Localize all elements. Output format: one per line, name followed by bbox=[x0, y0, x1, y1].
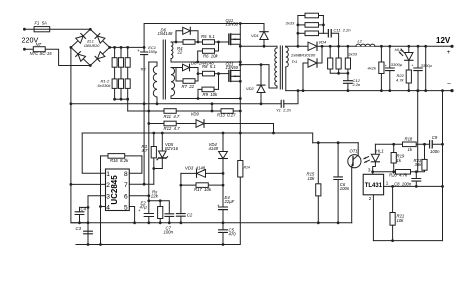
wire fuse line to bridge top bbox=[24, 28, 90, 30]
svg-text:100n: 100n bbox=[164, 229, 174, 234]
wire Tr1 secondary bottom lead bbox=[285, 67, 287, 91]
svg-text:VD3 4148: VD3 4148 bbox=[185, 165, 206, 170]
wire Tr1 primary bottom lead bbox=[276, 86, 278, 88]
svg-text:TL431: TL431 bbox=[365, 183, 383, 189]
wire secondary ground rail bbox=[286, 90, 452, 92]
node output terminal - bbox=[450, 89, 453, 92]
thermistor NT (NTC SC-15) bbox=[33, 47, 45, 52]
wire TL431 ref line bbox=[384, 185, 443, 187]
resistor R13 0.27 bbox=[221, 109, 233, 114]
diode VD4 4148 (aux) bbox=[222, 133, 224, 152]
svg-text:R18: R18 bbox=[405, 136, 413, 141]
svg-text:–: – bbox=[447, 81, 451, 88]
junction R3 Vcc bus bbox=[152, 132, 155, 135]
svg-text:C4: C4 bbox=[81, 207, 87, 212]
transistor Q11 13N50 bbox=[228, 34, 230, 44]
wire R11 R13 line bbox=[128, 110, 241, 112]
svg-text:GBU810: GBU810 bbox=[84, 43, 100, 48]
resistor 4x1k bbox=[380, 46, 382, 62]
wire R13 to ground rail bbox=[211, 104, 213, 111]
wire pin6 out bbox=[129, 195, 149, 197]
svg-text:R6 10k: R6 10k bbox=[203, 54, 219, 59]
wire pin2 bbox=[71, 183, 106, 185]
junction E4 C5 ground bus bbox=[222, 221, 225, 224]
junction source line end bbox=[239, 61, 242, 64]
wire Tr1 primary top lead bbox=[276, 46, 278, 48]
svg-text:C3: C3 bbox=[76, 226, 82, 231]
wire output to R20 corner bbox=[417, 91, 419, 172]
svg-text:OT1: OT1 bbox=[350, 148, 358, 153]
junction R6 to source line bbox=[196, 61, 199, 64]
junction C6 top bbox=[337, 141, 340, 144]
wire R7 left loop bbox=[176, 68, 183, 82]
junction pin6 driver vertical bbox=[147, 194, 150, 197]
svg-text:VD2: VD2 bbox=[246, 86, 255, 91]
svg-text:2: 2 bbox=[369, 196, 372, 201]
junction bridge bottom vertex bbox=[89, 64, 92, 67]
capacitor C7 100n bbox=[165, 214, 174, 217]
transformer Tr2 secondary 1 bbox=[171, 42, 173, 59]
wire Q11 Q21 stack vertical bbox=[239, 24, 241, 99]
resistor R6 10k bbox=[198, 51, 203, 62]
svg-text:F1 5A: F1 5A bbox=[35, 21, 48, 26]
svg-text:8: 8 bbox=[124, 171, 128, 178]
wire pin5 to ground bus bbox=[129, 207, 134, 223]
svg-text:4x1k: 4x1k bbox=[368, 65, 377, 70]
junction bridge - output bbox=[70, 46, 73, 49]
svg-text:HL1: HL1 bbox=[376, 148, 384, 153]
capacitor Y1 2.2n bbox=[281, 100, 284, 107]
svg-text:10k: 10k bbox=[397, 218, 405, 223]
wire sense vertical to bottom rail bbox=[223, 177, 240, 245]
bridge diode top-right bbox=[97, 36, 105, 43]
junction EC1 ground rail bbox=[143, 102, 146, 105]
svg-text:3x33: 3x33 bbox=[286, 21, 295, 26]
capacitor C3 bbox=[84, 231, 93, 234]
wire R7 right loop bbox=[195, 68, 198, 82]
wire sec1 top lead bbox=[171, 41, 176, 43]
junction R21 top bbox=[391, 185, 394, 188]
junction bus VD4 chain bbox=[222, 132, 225, 135]
resistor R8 5.1 bbox=[203, 71, 215, 76]
capacitor C8 100n bbox=[415, 172, 417, 179]
junction R17 chain bbox=[222, 184, 225, 187]
resistor R4 22 bbox=[183, 40, 195, 45]
zener VD5 BZV16 bbox=[161, 133, 163, 151]
resistors 3x33 snubber bbox=[298, 15, 305, 17]
wire secondary 12V line bbox=[286, 45, 452, 47]
resistor R21 10k bbox=[392, 186, 394, 212]
wire EC1 to pin7 Vcc bbox=[143, 55, 145, 185]
resistor R12 4.7 bbox=[164, 121, 176, 126]
wire sec2 top lead bbox=[171, 67, 176, 69]
wire sense vertical upper bbox=[239, 99, 241, 161]
diode D6 1N4148 bbox=[183, 27, 191, 34]
svg-text:36k: 36k bbox=[415, 162, 423, 167]
svg-text:R7 22: R7 22 bbox=[182, 84, 195, 89]
node input terminal N bbox=[23, 48, 26, 51]
wire C2 vertical bbox=[180, 173, 182, 213]
junction clamp R3 bbox=[152, 167, 155, 170]
bridge diode top-left bbox=[76, 36, 84, 43]
resistor R22 4.7k bbox=[408, 60, 410, 70]
led HL2 bbox=[408, 46, 410, 52]
transformer Tr2 core bbox=[163, 40, 165, 99]
junction R13 sense vertical bbox=[239, 110, 242, 113]
junction VD1 primary top bbox=[263, 45, 266, 48]
junction VD5 Vcc bus bbox=[161, 132, 164, 135]
wire snubber left vertical bbox=[297, 16, 299, 47]
svg-text:4148: 4148 bbox=[209, 146, 219, 151]
capacitor C4 bbox=[80, 206, 89, 208]
junction Tr2 primary to ground rail bbox=[156, 102, 159, 105]
svg-text:L2: L2 bbox=[358, 38, 363, 43]
resistor R19 1k bbox=[393, 144, 395, 152]
svg-text:+: + bbox=[447, 49, 451, 56]
svg-text:1: 1 bbox=[386, 181, 389, 186]
wire clamp line bbox=[154, 168, 163, 170]
junction R11 line driver vertical bbox=[147, 110, 150, 113]
wire ground bus bbox=[71, 222, 352, 224]
wire R1-2 bottom bus bbox=[115, 98, 128, 100]
led HL1 bbox=[374, 144, 376, 154]
capacitor C14 3300u bbox=[417, 46, 419, 68]
svg-text:R5 5.1: R5 5.1 bbox=[201, 34, 215, 39]
svg-text:6x330k: 6x330k bbox=[98, 83, 112, 88]
wire gate line Q21 bbox=[198, 73, 228, 75]
junction Q11 gate node bbox=[217, 41, 220, 44]
resistors R1-2 6x330k bank bbox=[114, 47, 116, 99]
diode VD4b MBR30100 bbox=[303, 62, 308, 64]
wire Vcc feedback bus bbox=[82, 133, 313, 143]
svg-text:3300µ: 3300µ bbox=[391, 62, 403, 67]
junction bridge top vertex bbox=[89, 28, 92, 31]
junction bridge + output bbox=[108, 46, 111, 49]
diode VD3 4148 bbox=[197, 170, 206, 178]
diode VD9 bbox=[196, 120, 204, 128]
wire R23 bottom bbox=[418, 170, 425, 172]
fuse F1 bbox=[34, 27, 50, 32]
junction pin3 C4 bbox=[87, 206, 90, 209]
svg-text:Y1 2.2n: Y1 2.2n bbox=[276, 108, 292, 113]
junction pin3 line ground bus bbox=[87, 221, 90, 224]
wire feedback top line bbox=[375, 143, 442, 145]
junction R19 top bbox=[392, 143, 395, 146]
wire RT CT node line bbox=[149, 201, 170, 214]
wire NTC line to bridge bottom bbox=[24, 49, 90, 65]
svg-text:UC2845: UC2845 bbox=[110, 175, 119, 205]
bridge diode bottom-right bbox=[97, 52, 105, 59]
junction C8 bottom bbox=[415, 185, 418, 188]
wire R17 line bbox=[181, 184, 223, 186]
junction C3 bottom rail bbox=[87, 243, 90, 246]
junction VD3 chain bbox=[222, 172, 225, 175]
junction R23 top bbox=[423, 143, 426, 146]
svg-text:13N50: 13N50 bbox=[226, 22, 239, 27]
junction RT vertical bottom rail bbox=[99, 243, 102, 246]
junction VD9 bus bbox=[272, 132, 275, 135]
svg-text:12V: 12V bbox=[436, 36, 451, 45]
wire opto emitter down bbox=[351, 167, 353, 223]
junction C12 ground bbox=[347, 89, 350, 92]
junction pin4 RT vertical bbox=[99, 205, 102, 208]
svg-text:7: 7 bbox=[124, 182, 128, 189]
svg-text:2.2n: 2.2n bbox=[352, 82, 362, 87]
svg-text:R13 0.27: R13 0.27 bbox=[217, 112, 236, 117]
wire Tr1 secondary top lead bbox=[285, 45, 287, 48]
svg-text:R12 4.7: R12 4.7 bbox=[164, 126, 181, 131]
diode VD1 bbox=[263, 24, 265, 47]
capacitor C2 bbox=[176, 214, 185, 217]
svg-text:BZV16: BZV16 bbox=[165, 146, 179, 151]
junction R9 to lower source line bbox=[197, 97, 200, 100]
svg-text:1: 1 bbox=[106, 171, 110, 178]
svg-text:VD1: VD1 bbox=[251, 33, 259, 38]
wire snubber right vertical bbox=[322, 16, 324, 34]
wire R20 line bbox=[373, 171, 418, 173]
capacitor C6 100n bbox=[337, 143, 339, 177]
diode VD4a MBR30100 bbox=[308, 42, 317, 50]
wire R1-2 to R11 line bbox=[127, 99, 129, 111]
wire +310V rail to top rail bbox=[110, 24, 264, 48]
resistor R17 10k bbox=[196, 183, 208, 188]
svg-text:13N50: 13N50 bbox=[226, 65, 239, 70]
junction C8 top bbox=[415, 170, 418, 173]
junction output rail right vertical bbox=[441, 89, 444, 92]
svg-text:4.7: 4.7 bbox=[142, 148, 149, 153]
svg-text:R16 8.2k: R16 8.2k bbox=[110, 158, 129, 163]
svg-text:10k: 10k bbox=[308, 176, 316, 181]
svg-text:Tr1: Tr1 bbox=[292, 59, 298, 64]
transistor Q21 13N50 bbox=[228, 70, 230, 81]
wire HL1 cathode to TL431 bbox=[373, 162, 376, 175]
capacitor C5 470 bbox=[219, 230, 228, 233]
junction Q21 source bbox=[239, 80, 242, 83]
svg-text:4.7k: 4.7k bbox=[396, 77, 405, 82]
wire feedback bottom rail bbox=[373, 240, 442, 242]
wire opto collector line bbox=[313, 142, 359, 144]
junction VD4 cathodes bbox=[321, 45, 324, 48]
svg-text:VD4: VD4 bbox=[319, 40, 328, 45]
wire pin7 Vcc bbox=[129, 183, 154, 185]
svg-text:R17 10k: R17 10k bbox=[194, 187, 212, 192]
svg-text:4: 4 bbox=[106, 204, 110, 211]
transformer Tr1 primary winding bbox=[275, 48, 277, 86]
svg-text:2xMBR30100: 2xMBR30100 bbox=[290, 52, 316, 57]
junction R17 line C2 vertical bbox=[180, 184, 183, 187]
junction R15 top bbox=[317, 141, 320, 144]
svg-text:C9: C9 bbox=[432, 135, 438, 140]
wire upper source line bbox=[171, 61, 240, 63]
wire VD9 to bus corner bbox=[204, 124, 274, 134]
wire output link vertical bbox=[425, 46, 427, 90]
wire C11 to secondary line bbox=[331, 33, 338, 46]
wire right vertical from output bbox=[442, 91, 444, 241]
svg-text:150µ: 150µ bbox=[148, 49, 158, 54]
capacitor C9 100n bbox=[430, 141, 433, 148]
svg-text:22: 22 bbox=[177, 49, 183, 54]
wire pin4 stub bbox=[101, 206, 106, 208]
junction R12 line driver vertical bbox=[147, 122, 150, 125]
svg-text:22k: 22k bbox=[150, 194, 159, 199]
wire Tr2 primary bottom bbox=[156, 97, 158, 104]
wire D8 line bbox=[176, 67, 198, 69]
junction lower source line end bbox=[239, 97, 242, 100]
junction feedback line right vertical bbox=[441, 143, 444, 146]
wire D6 bypass loop bbox=[176, 31, 198, 42]
svg-text:NT: NT bbox=[36, 42, 42, 47]
capacitor C13 3300u bbox=[389, 46, 391, 68]
resistor R7 22 bbox=[183, 79, 195, 84]
wire primary bottom route bbox=[240, 65, 277, 88]
capacitor C12 2.2n bbox=[344, 81, 353, 84]
svg-text:C2: C2 bbox=[187, 212, 193, 217]
resistors 3x33 output damper bbox=[329, 46, 331, 58]
resistor R16 8.2k bbox=[101, 155, 109, 157]
svg-text:6: 6 bbox=[124, 193, 128, 200]
transformer Tr2 primary winding bbox=[153, 66, 157, 97]
svg-text:Tr2: Tr2 bbox=[140, 66, 146, 71]
capacitor C11 2.2n bbox=[323, 32, 327, 34]
ic U1 UC2845 body bbox=[106, 169, 130, 211]
resistor R5 5.1 bbox=[203, 40, 215, 45]
svg-text:3: 3 bbox=[368, 167, 371, 172]
wire pin1 to Vcc bus bbox=[82, 133, 105, 173]
junction VD4b anode ground bbox=[302, 89, 305, 92]
resistor R14 bbox=[238, 161, 243, 178]
resistor R23 36k bbox=[424, 144, 426, 159]
junction D8 loop gate line bbox=[197, 72, 200, 75]
node input terminal L bbox=[23, 28, 26, 31]
svg-text:47µ: 47µ bbox=[140, 205, 148, 210]
wire bottom rail left bbox=[76, 244, 240, 246]
junction R21 bottom bbox=[391, 239, 394, 242]
wire damper bottom bus bbox=[330, 69, 348, 73]
wire Tr2 primary top bbox=[149, 62, 157, 66]
svg-text:470: 470 bbox=[229, 231, 237, 236]
wire R12 line bbox=[149, 123, 196, 125]
svg-text:C11 2.2n: C11 2.2n bbox=[334, 27, 352, 32]
wire TL431 anode down bbox=[372, 195, 374, 241]
wire pin3 down to C3/C4 node bbox=[88, 196, 106, 245]
transformer Tr1 core bbox=[280, 46, 282, 89]
svg-text:R14: R14 bbox=[244, 166, 250, 170]
svg-text:R20 4.7k: R20 4.7k bbox=[389, 172, 408, 177]
optocoupler OT1 bbox=[348, 155, 361, 168]
capacitor EC1 150u bbox=[143, 47, 145, 52]
resistor Rx 22k bbox=[159, 201, 161, 207]
wire primary top line bbox=[240, 45, 277, 47]
svg-text:3300µ: 3300µ bbox=[421, 63, 433, 68]
svg-text:R9 10k: R9 10k bbox=[203, 92, 219, 97]
junction source vertical primary route bbox=[239, 63, 242, 66]
wire lower source line bbox=[171, 96, 240, 99]
svg-text:2: 2 bbox=[106, 182, 110, 189]
wire Y1 to secondary ground bbox=[284, 91, 298, 104]
wire primary ground rail bbox=[71, 103, 281, 105]
diode VD2 bbox=[260, 65, 262, 104]
svg-text:3: 3 bbox=[106, 193, 110, 200]
junction ground rail left end bbox=[70, 102, 73, 105]
svg-text:100n: 100n bbox=[430, 149, 440, 154]
bridge rectifier ZL1 GBU810 outline bbox=[71, 29, 110, 65]
wire bridge minus down the left bbox=[71, 47, 88, 222]
junction pin7 EC1 vertical bbox=[143, 183, 146, 186]
svg-text:C8 100n: C8 100n bbox=[394, 181, 412, 186]
ic TL431 body bbox=[363, 174, 383, 195]
junction VD2 ground rail bbox=[260, 102, 263, 105]
svg-text:HL2: HL2 bbox=[395, 47, 403, 52]
svg-text:NTC SC-15: NTC SC-15 bbox=[30, 51, 53, 56]
wire pin6 driver chain vertical bbox=[148, 62, 150, 214]
junction VD2 top bbox=[260, 63, 263, 66]
junction sense chain bottom rail bbox=[222, 243, 225, 246]
bridge diode bottom-left bbox=[78, 54, 86, 61]
junction rail EC1 bbox=[143, 46, 146, 49]
junction snubber on secondary line bbox=[297, 45, 300, 48]
resistor R9 10k bbox=[198, 89, 202, 98]
diode D8 1N4148 bbox=[183, 64, 190, 71]
resistor R11 4.7 bbox=[164, 109, 176, 114]
junction TL431 cathode R20 line bbox=[371, 170, 374, 173]
transformer Tr1 secondary winding bbox=[286, 47, 289, 67]
junction bus sense vertical bbox=[239, 132, 242, 135]
junction Y1 secondary ground bbox=[297, 89, 300, 92]
junction pin2 left vertical bbox=[70, 183, 73, 186]
wire sec1 bottom lead bbox=[170, 59, 172, 62]
resistor R20 4.7k bbox=[396, 170, 411, 175]
wire pin8 Vref to R16 bbox=[129, 156, 142, 173]
node output terminal + bbox=[450, 45, 453, 48]
wire R16 left vertical bbox=[100, 156, 102, 245]
wire gate line Q11 bbox=[176, 41, 228, 43]
svg-text:1N4148: 1N4148 bbox=[158, 31, 174, 36]
svg-text:VD9: VD9 bbox=[191, 111, 200, 116]
inductor L2 bbox=[356, 43, 375, 46]
junction ref line right vertical bbox=[441, 185, 444, 188]
resistor R18 1k bbox=[403, 142, 417, 147]
wire VD3 line bbox=[181, 172, 223, 174]
svg-text:100n: 100n bbox=[340, 186, 350, 191]
junction Q11 drain top rail bbox=[239, 22, 242, 25]
junction output rail divider bbox=[416, 89, 419, 92]
svg-text:22µF: 22µF bbox=[224, 199, 235, 204]
svg-text:R8 5.1: R8 5.1 bbox=[202, 64, 216, 69]
svg-text:R11 4.7: R11 4.7 bbox=[164, 114, 180, 119]
resistor R15 10k bbox=[317, 143, 319, 184]
junction Q21 gate node bbox=[217, 72, 220, 75]
resistor R3 4.7 bbox=[153, 133, 155, 147]
svg-text:+: + bbox=[137, 48, 140, 53]
svg-text:5: 5 bbox=[124, 204, 128, 211]
transformer Tr2 secondary 2 bbox=[171, 68, 175, 97]
junction pin5 ground bus bbox=[133, 221, 136, 224]
svg-text:3x33: 3x33 bbox=[348, 52, 357, 57]
junction R19 R20 line bbox=[392, 170, 395, 173]
junction Q11 source node bbox=[239, 45, 242, 48]
